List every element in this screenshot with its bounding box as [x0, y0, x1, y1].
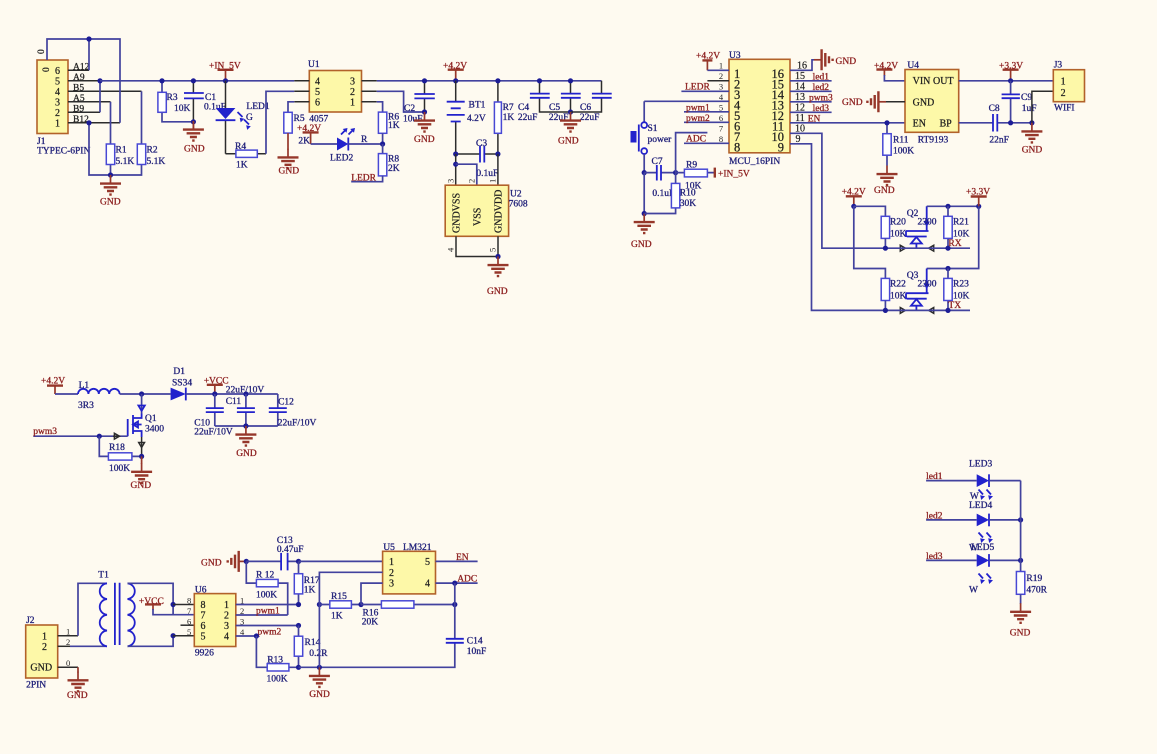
- wire U2 pins4,5 to gnd: [456, 236, 498, 256]
- svg-text:GND: GND: [184, 145, 205, 155]
- junction R11 EN: [884, 120, 889, 125]
- wire S1 to gnd: [643, 173, 645, 214]
- svg-text:EN: EN: [913, 118, 926, 129]
- wire to L1: [55, 393, 78, 395]
- wire Q2 drain top: [927, 205, 979, 207]
- wire T1 secondary top to U6: [128, 583, 195, 614]
- wire +4.2V down to Q3 row: [854, 206, 886, 278]
- svg-text:VSS: VSS: [473, 208, 484, 226]
- junction U2 gnd: [495, 254, 500, 259]
- LED LED4: [969, 501, 993, 554]
- resistor R14: [294, 626, 328, 668]
- svg-text:100K: 100K: [256, 591, 277, 601]
- svg-text:+4.2V: +4.2V: [696, 51, 720, 61]
- svg-text:1K: 1K: [331, 612, 343, 622]
- wire B5 to R2: [141, 91, 143, 144]
- svg-text:R7: R7: [503, 103, 514, 113]
- junction gnd rail R12: [244, 559, 249, 564]
- junction LED4: [1018, 517, 1023, 522]
- svg-text:pwm1: pwm1: [256, 607, 280, 617]
- resistor R19: [1016, 572, 1047, 605]
- wire net pwm2 U3 pin6: [684, 114, 729, 124]
- svg-text:22uF/10V: 22uF/10V: [226, 386, 265, 396]
- svg-text:C7: C7: [652, 157, 663, 167]
- svg-text:2: 2: [719, 71, 723, 81]
- capacitor C9: [1002, 81, 1037, 123]
- svg-text:22uF/10V: 22uF/10V: [278, 419, 317, 429]
- capacitor C4: [518, 81, 571, 123]
- switch S1: [631, 101, 673, 172]
- U1 inside pin numbers: [315, 77, 355, 109]
- svg-text:R17: R17: [304, 576, 320, 586]
- svg-text:Q1: Q1: [145, 414, 157, 424]
- wire net LEDR U3 pin3: [681, 82, 729, 92]
- wire Q2 source row RX: [885, 239, 970, 249]
- inductor L1: [78, 381, 120, 411]
- svg-text:2: 2: [55, 108, 60, 119]
- svg-text:4057: 4057: [309, 115, 328, 125]
- svg-text:22uF/10V: 22uF/10V: [194, 428, 233, 438]
- svg-text:R20: R20: [890, 218, 906, 228]
- svg-text:U1: U1: [308, 60, 320, 70]
- resistor R9: [676, 161, 715, 192]
- ground U3 pin16: [790, 49, 856, 70]
- wire junction to U3 pin7: [676, 133, 708, 173]
- svg-text:10nF: 10nF: [467, 647, 487, 657]
- svg-text:R1: R1: [116, 146, 127, 156]
- junction C1 bottom: [191, 119, 196, 124]
- svg-text:led3: led3: [813, 104, 830, 114]
- junction U5 pin2 rail: [317, 602, 322, 607]
- MCU U3 body: [729, 51, 790, 167]
- power +IN_5V: [209, 62, 241, 81]
- svg-text:10K: 10K: [890, 292, 907, 302]
- wire A9-B9 vbus link: [99, 81, 101, 113]
- junction R22 bottom: [883, 308, 888, 313]
- junction +4.2V Q2: [851, 204, 856, 209]
- U5 inside pin numbers: [389, 557, 430, 590]
- svg-text:1: 1: [224, 600, 229, 611]
- capacitor C1: [184, 81, 226, 122]
- svg-text:GND: GND: [842, 98, 863, 108]
- svg-text:1uF: 1uF: [1022, 104, 1037, 114]
- ground S1: [631, 214, 655, 251]
- LED LED2: [330, 128, 368, 164]
- svg-text:2: 2: [42, 642, 47, 653]
- op-amp U1 body: [308, 60, 362, 125]
- junction U6 pin5: [171, 633, 176, 638]
- wire gnd rail to U5 pin1: [299, 560, 383, 562]
- wire +4.2V to R20: [854, 206, 886, 216]
- svg-text:+3.3V: +3.3V: [966, 188, 990, 198]
- junction R21 top: [945, 204, 950, 209]
- resistor R6: [378, 112, 399, 144]
- wire U1 pin6 to R5: [288, 102, 294, 113]
- svg-text:C12: C12: [278, 398, 294, 408]
- junction U6 pin3 R14: [296, 623, 301, 628]
- svg-text:GND: GND: [279, 167, 300, 177]
- svg-text:R2: R2: [147, 146, 158, 156]
- svg-text:ADC: ADC: [457, 575, 477, 585]
- power +4.2V U3 pin1: [696, 51, 720, 70]
- svg-text:C11: C11: [226, 397, 242, 407]
- svg-text:SS34: SS34: [172, 379, 192, 389]
- junction C7 R9 R10: [673, 170, 678, 175]
- svg-text:6: 6: [315, 98, 320, 109]
- capacitor C3: [456, 139, 499, 179]
- capacitor C5: [549, 81, 581, 123]
- junction R7 top: [495, 78, 500, 83]
- svg-text:+4.2V: +4.2V: [41, 377, 65, 387]
- wire net pwm1 U6 pin2: [236, 607, 288, 617]
- U3 inside pin numbers right: [772, 67, 785, 155]
- svg-text:8: 8: [734, 141, 740, 155]
- ground R19: [1010, 603, 1031, 638]
- svg-text:5: 5: [187, 627, 191, 637]
- ground R5: [278, 133, 300, 176]
- junction A9 bus: [97, 78, 102, 83]
- svg-text:U4: U4: [907, 61, 919, 71]
- wire LED common down: [1020, 481, 1022, 572]
- wire R7 to U2 pin1: [497, 154, 499, 185]
- svg-text:1: 1: [55, 119, 60, 130]
- resistor R3: [158, 81, 194, 122]
- resistor R7: [494, 81, 514, 154]
- svg-text:3: 3: [719, 82, 723, 92]
- wire U3 pin2: [707, 80, 729, 82]
- junction C2 top: [422, 78, 427, 83]
- svg-text:+4.2V: +4.2V: [443, 62, 467, 72]
- wire net led2 U3 pin14: [790, 83, 832, 93]
- svg-text:BT1: BT1: [469, 101, 486, 111]
- svg-text:led2: led2: [813, 83, 830, 93]
- svg-text:5.1K: 5.1K: [116, 157, 135, 167]
- svg-text:U6: U6: [195, 586, 207, 596]
- svg-text:2K: 2K: [388, 164, 400, 174]
- resistor R1: [106, 144, 134, 167]
- resistor R18: [99, 436, 141, 474]
- svg-text:GND: GND: [414, 135, 435, 145]
- svg-text:GND: GND: [201, 558, 222, 568]
- wire net led1: [926, 472, 977, 482]
- svg-text:LEDR: LEDR: [351, 174, 376, 184]
- svg-text:5: 5: [201, 632, 206, 643]
- junction C5 bottom: [568, 109, 573, 114]
- wire J2 pin1 to T1: [58, 583, 107, 636]
- svg-text:led1: led1: [926, 472, 943, 482]
- wire J2 gnd pin: [58, 666, 78, 668]
- U3 outside pin numbers left: [719, 61, 724, 145]
- svg-text:+VCC: +VCC: [139, 597, 164, 607]
- svg-text:EN: EN: [456, 553, 469, 563]
- svg-text:0: 0: [42, 67, 52, 72]
- junction +3.3V out: [1008, 78, 1013, 83]
- svg-text:1K: 1K: [503, 113, 515, 123]
- svg-text:GND: GND: [874, 186, 895, 196]
- svg-text:GND: GND: [236, 449, 257, 459]
- wire U5 pin2 to gnd rail: [319, 572, 382, 667]
- svg-text:2: 2: [467, 179, 477, 183]
- ground C2: [414, 112, 435, 145]
- wire net led2: [926, 511, 977, 521]
- svg-text:led2: led2: [926, 511, 943, 521]
- junction R20 bottom: [883, 246, 888, 251]
- svg-text:pwm1: pwm1: [686, 103, 710, 113]
- svg-text:8: 8: [187, 595, 191, 605]
- power +4.2V LED2: [297, 124, 321, 144]
- svg-text:power: power: [648, 135, 673, 145]
- svg-text:OUT: OUT: [933, 76, 954, 87]
- junction C9 bottom: [1008, 120, 1013, 125]
- wire T1 secondary bottom to U6 pin5: [128, 636, 174, 647]
- svg-text:3400: 3400: [145, 425, 164, 435]
- transformer T1: [98, 571, 134, 647]
- wire D1 to caps: [186, 393, 278, 395]
- svg-text:G: G: [246, 113, 253, 123]
- wire BT1 to U2 pin3: [455, 154, 457, 185]
- junction LED5: [1018, 558, 1023, 563]
- svg-text:2: 2: [389, 568, 394, 579]
- svg-text:5: 5: [425, 557, 430, 568]
- transistor Q1: [128, 394, 165, 456]
- ground C1: [183, 121, 205, 155]
- svg-text:GNDVSS: GNDVSS: [452, 193, 463, 233]
- J2 outside pin numbers: [66, 627, 70, 669]
- ground R11: [874, 166, 898, 197]
- capacitor C7: [644, 157, 675, 199]
- battery BT1: [447, 81, 486, 154]
- svg-text:0.47uF: 0.47uF: [277, 545, 304, 555]
- svg-text:1: 1: [389, 557, 394, 568]
- LED LED1: [216, 81, 270, 154]
- junction U2 pin2 tap: [453, 162, 458, 167]
- svg-text:1: 1: [350, 98, 355, 109]
- svg-text:0: 0: [37, 49, 47, 54]
- resistor R20: [881, 216, 906, 248]
- wire J3 pin2: [1032, 91, 1053, 123]
- power +VCC U6: [139, 597, 173, 615]
- svg-text:4: 4: [315, 77, 320, 88]
- capacitor C14: [446, 583, 487, 657]
- svg-text:pwm2: pwm2: [686, 114, 710, 124]
- ground U5 rail: [309, 667, 330, 700]
- wire U3 pin9 to Q3: [790, 144, 885, 311]
- svg-text:GND: GND: [558, 137, 579, 147]
- svg-text:GND: GND: [836, 57, 857, 67]
- svg-text:7: 7: [187, 606, 191, 616]
- junction R23 bottom: [945, 308, 950, 313]
- svg-text:C4: C4: [518, 103, 529, 113]
- wire LED2 to R6/R8: [348, 143, 382, 145]
- junction battery bus: [453, 78, 458, 83]
- svg-text:J2: J2: [26, 616, 35, 626]
- svg-text:R18: R18: [109, 443, 125, 453]
- svg-text:VIN: VIN: [913, 76, 931, 87]
- svg-text:4: 4: [425, 579, 430, 590]
- junction C8 gnd: [1029, 120, 1034, 125]
- wire caps bottom rail: [215, 425, 278, 427]
- junction caps gnd: [243, 423, 248, 428]
- power +4.2V U4: [874, 62, 905, 81]
- svg-text:LEDR: LEDR: [685, 82, 710, 92]
- svg-text:2PIN: 2PIN: [26, 681, 46, 691]
- svg-text:R3: R3: [167, 93, 178, 103]
- svg-text:R15: R15: [331, 592, 347, 602]
- wire net pwm1 U3 pin5: [684, 103, 729, 113]
- resistor R16: [361, 601, 455, 628]
- svg-text:LED2: LED2: [330, 154, 353, 164]
- resistor R21: [944, 206, 970, 248]
- IC U2 body: [445, 185, 528, 236]
- svg-text:pwm2: pwm2: [258, 628, 282, 638]
- svg-text:2300: 2300: [918, 218, 937, 228]
- U3 outside pin numbers right: [795, 61, 807, 146]
- svg-text:2: 2: [224, 611, 229, 622]
- svg-text:C8: C8: [989, 104, 1000, 114]
- wire L1 to D1: [120, 393, 171, 395]
- wire U1 pin1 to R6: [377, 102, 383, 112]
- junction +3.3V Q2: [976, 204, 981, 209]
- svg-text:2K: 2K: [298, 137, 310, 147]
- svg-text:1K: 1K: [236, 161, 248, 171]
- svg-text:led1: led1: [813, 73, 830, 83]
- svg-text:4: 4: [224, 632, 229, 643]
- svg-text:6: 6: [187, 616, 191, 626]
- resistor R5: [284, 112, 310, 146]
- svg-text:R4: R4: [235, 142, 246, 152]
- svg-text:J1: J1: [37, 137, 46, 147]
- svg-text:1: 1: [1061, 76, 1066, 87]
- resistor R12: [246, 561, 287, 615]
- svg-text:R22: R22: [890, 280, 906, 290]
- power +4.2V Q2: [842, 188, 866, 207]
- junction bottom gnd: [317, 665, 322, 670]
- svg-text:100K: 100K: [893, 147, 914, 157]
- LED LED3: [969, 460, 993, 503]
- LED LED5: [969, 543, 994, 596]
- J1 inside pin numbers: [55, 66, 60, 130]
- svg-text:22uF: 22uF: [580, 113, 600, 123]
- resistor R23: [944, 269, 970, 311]
- svg-text:GND: GND: [1010, 629, 1031, 639]
- wire net led3: [926, 552, 977, 562]
- wire net led1 U3 pin15: [790, 73, 832, 83]
- svg-text:4.2V: 4.2V: [467, 114, 486, 124]
- transistor Q2: [900, 206, 937, 251]
- junction gnd rail: [108, 172, 113, 177]
- junction C3 left: [453, 151, 458, 156]
- svg-text:GND: GND: [487, 287, 508, 297]
- ground U4: [842, 91, 905, 112]
- svg-text:0.1uF: 0.1uF: [476, 169, 498, 179]
- U1 pin stubs: [294, 81, 376, 102]
- U2 rotated pin names: [452, 190, 505, 233]
- svg-text:6: 6: [55, 66, 60, 77]
- svg-text:3R3: 3R3: [78, 401, 94, 411]
- svg-text:7: 7: [719, 124, 723, 134]
- wire U6 pin5 stub: [173, 635, 194, 637]
- diode D1: [171, 367, 193, 400]
- svg-text:GND: GND: [913, 97, 935, 108]
- svg-text:10K: 10K: [890, 230, 907, 240]
- svg-text:470R: 470R: [1026, 586, 1047, 596]
- svg-text:+IN_5V: +IN_5V: [209, 62, 241, 72]
- junction S1 bottom: [642, 170, 647, 175]
- junction ADC C14: [452, 581, 457, 586]
- svg-text:3: 3: [224, 621, 229, 632]
- junction R15 R16 U5pin3: [358, 602, 363, 607]
- svg-text:R8: R8: [388, 155, 399, 165]
- svg-text:pwm3: pwm3: [33, 427, 57, 437]
- svg-text:R9: R9: [686, 161, 697, 171]
- svg-text:U2: U2: [510, 190, 522, 200]
- capacitor C2: [403, 81, 435, 125]
- transistor Q3: [900, 269, 937, 314]
- junction R21 bottom: [945, 246, 950, 251]
- svg-text:7: 7: [201, 611, 206, 622]
- junction Q1 drain: [139, 391, 144, 396]
- svg-text:C3: C3: [476, 139, 487, 149]
- wire U2 pin2 jog: [456, 164, 477, 185]
- svg-text:C1: C1: [205, 93, 216, 103]
- junction Q1 source R18: [139, 454, 144, 459]
- wire net pwm3 U3 pin13: [790, 94, 833, 104]
- svg-text:8: 8: [201, 600, 206, 611]
- svg-text:U3: U3: [729, 51, 741, 61]
- junction pwm2 R13: [254, 633, 259, 638]
- svg-text:GND: GND: [100, 198, 121, 208]
- ground U2: [487, 257, 509, 298]
- wire U6 pin8 stub: [173, 604, 194, 606]
- capacitor C8: [959, 104, 1032, 146]
- capacitor C6: [571, 81, 612, 123]
- svg-text:R19: R19: [1026, 574, 1042, 584]
- capacitor C11: [226, 386, 265, 427]
- svg-text:10K: 10K: [953, 230, 970, 240]
- svg-text:22uF: 22uF: [518, 113, 538, 123]
- svg-text:C6: C6: [580, 103, 591, 113]
- svg-text:1K: 1K: [388, 121, 400, 131]
- svg-text:22nF: 22nF: [989, 136, 1009, 146]
- svg-text:GNDVDD: GNDVDD: [494, 190, 505, 233]
- ground J1: [100, 175, 121, 208]
- wire B12 to gnd rail: [89, 123, 142, 175]
- ground J2: [67, 667, 89, 701]
- junction +IN_5V: [223, 78, 228, 83]
- wire U3 pin10 to Q2: [790, 133, 885, 248]
- resistor R10: [644, 173, 696, 214]
- power +IN_5V R9: [715, 168, 750, 180]
- junction R3 top: [159, 78, 164, 83]
- svg-text:9: 9: [778, 141, 784, 155]
- junction C4 top: [537, 78, 542, 83]
- svg-text:W: W: [969, 586, 978, 596]
- svg-text:5: 5: [315, 87, 320, 98]
- svg-text:100K: 100K: [267, 675, 288, 685]
- wire U5 pin3 to divider: [361, 583, 383, 604]
- svg-text:T1: T1: [98, 571, 109, 581]
- svg-text:S1: S1: [648, 124, 658, 134]
- wire U6 pin3 row: [236, 625, 299, 627]
- svg-text:3: 3: [389, 579, 394, 590]
- junction C1 top: [191, 78, 196, 83]
- resistor R17: [294, 561, 320, 604]
- junction R6 R8 LED2: [380, 141, 385, 146]
- svg-text:LED3: LED3: [969, 460, 992, 470]
- ground Q1: [131, 456, 153, 491]
- wire +3.3V down to Q3: [927, 206, 979, 268]
- junction C3 right: [495, 151, 500, 156]
